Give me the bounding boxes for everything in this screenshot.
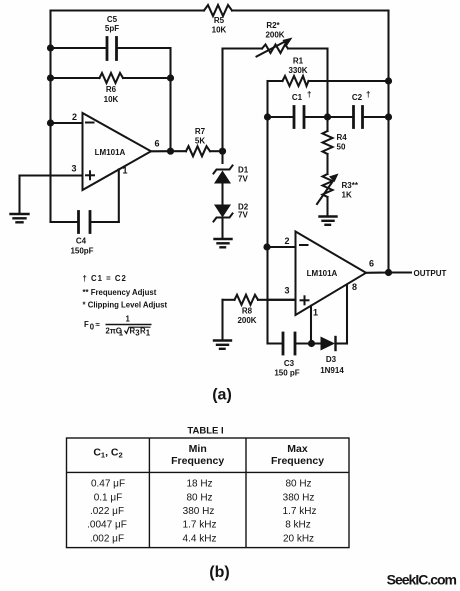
svg-text:C4: C4 — [76, 237, 87, 246]
svg-text:R8: R8 — [242, 307, 253, 316]
wire: left rail (node A vertical) — [49, 11, 51, 223]
svg-text:* Clipping Level Adjust: * Clipping Level Adjust — [83, 301, 168, 310]
capacitor C2 — [328, 107, 389, 128]
svg-text:0: 0 — [90, 323, 95, 332]
svg-text:R6: R6 — [106, 85, 117, 94]
svg-text:1N914: 1N914 — [320, 366, 344, 375]
svg-text:0.1 μF: 0.1 μF — [94, 492, 123, 503]
svg-text:R5: R5 — [214, 16, 225, 25]
svg-text:R2*: R2* — [266, 21, 280, 30]
svg-text:1: 1 — [313, 308, 318, 318]
svg-text:6: 6 — [369, 259, 374, 269]
ground: R3 — [320, 217, 337, 225]
svg-text:7V: 7V — [238, 175, 248, 184]
svg-text:20 kHz: 20 kHz — [283, 533, 314, 544]
node: junction A-C5 — [47, 44, 54, 51]
svg-text:50: 50 — [337, 143, 346, 152]
svg-text:10K: 10K — [104, 95, 119, 104]
svg-text:380 Hz: 380 Hz — [183, 506, 215, 517]
svg-text:1: 1 — [119, 329, 124, 338]
svg-text:8: 8 — [352, 282, 357, 292]
ground: U1 pin3 — [11, 176, 29, 223]
node: junction U1 output — [167, 148, 174, 155]
node: junction A pin2 — [47, 119, 54, 126]
svg-text:† C1 = C2: † C1 = C2 — [83, 274, 127, 283]
svg-text:Max: Max — [287, 443, 308, 455]
svg-text:5K: 5K — [195, 137, 205, 146]
resistor R1 — [268, 76, 389, 117]
svg-text:.022 μF: .022 μF — [90, 506, 124, 517]
svg-text:1K: 1K — [342, 191, 352, 200]
svg-text:8 kHz: 8 kHz — [285, 520, 311, 531]
svg-text:3: 3 — [284, 286, 289, 296]
svg-text:330K: 330K — [288, 66, 307, 75]
diode D3 — [312, 337, 348, 351]
svg-text:C1: C1 — [292, 93, 303, 102]
ground: zener chain — [215, 239, 232, 247]
svg-text:C3: C3 — [284, 359, 295, 368]
ground: R8 — [214, 341, 231, 349]
svg-text:80 Hz: 80 Hz — [285, 479, 311, 490]
svg-text:C5: C5 — [107, 15, 118, 24]
svg-text:.002 μF: .002 μF — [90, 533, 124, 544]
svg-text:R3**: R3** — [342, 181, 359, 190]
svg-text:Frequency: Frequency — [171, 455, 224, 467]
svg-text:150pF: 150pF — [70, 247, 93, 256]
svg-text:1: 1 — [126, 315, 131, 324]
wire: output lead — [389, 271, 412, 273]
svg-text:†: † — [307, 90, 311, 99]
potentiometer R3 — [317, 174, 339, 217]
node: junction R6 right — [167, 74, 174, 81]
capacitor C5 — [51, 38, 171, 60]
svg-text:≈: ≈ — [96, 320, 101, 329]
node: junction C3/D3/pin1 — [308, 340, 315, 347]
svg-text:200K: 200K — [265, 31, 284, 40]
wire: top rail from node A to right rail — [51, 9, 205, 11]
node: junction C1/C2/R4 — [324, 113, 331, 120]
svg-text:5pF: 5pF — [105, 24, 119, 33]
svg-text:380 Hz: 380 Hz — [283, 492, 315, 503]
capacitor C3 — [268, 333, 312, 354]
svg-text:OUTPUT: OUTPUT — [414, 269, 447, 278]
svg-text:C1, C2: C1, C2 — [93, 447, 122, 460]
resistor R5 — [204, 5, 232, 16]
svg-text:D1: D1 — [238, 166, 249, 175]
resistor R7 — [171, 146, 223, 156]
svg-text:LM101A: LM101A — [307, 269, 338, 278]
resistor R6 — [51, 73, 171, 83]
wire: R2 branch vertical down to zener node — [221, 49, 223, 164]
svg-text:2: 2 — [72, 112, 77, 122]
svg-text:10K: 10K — [212, 26, 227, 35]
svg-text:80 Hz: 80 Hz — [186, 492, 212, 503]
node: junction R7/zener — [219, 148, 226, 155]
svg-text:1.7 kHz: 1.7 kHz — [183, 520, 217, 531]
svg-text:6: 6 — [154, 139, 159, 149]
svg-text:18 Hz: 18 Hz — [186, 479, 212, 490]
zener D1 — [214, 166, 233, 205]
resistor R8 — [223, 295, 296, 340]
node: junction A-R6 — [47, 74, 54, 81]
resistor R4 — [323, 117, 333, 174]
svg-text:LM101A: LM101A — [95, 148, 126, 157]
svg-text:(b): (b) — [209, 564, 229, 581]
svg-text:1: 1 — [122, 166, 127, 176]
node: junction R1/right rail — [385, 77, 392, 84]
svg-text:R4: R4 — [337, 133, 348, 142]
svg-text:0.47 μF: 0.47 μF — [91, 479, 125, 490]
svg-text:TABLE I: TABLE I — [187, 426, 223, 437]
node: junction C2 right rail — [385, 113, 392, 120]
node: junction U2 output — [385, 269, 392, 276]
zener D2 — [214, 205, 233, 239]
wire: C5/R6 right vertical to U1 output — [169, 48, 171, 151]
svg-text:150 pF: 150 pF — [274, 369, 299, 378]
potentiometer R2 — [223, 38, 328, 57]
wire: right rail vertical — [387, 11, 389, 273]
svg-text:7V: 7V — [238, 211, 248, 220]
svg-text:(a): (a) — [212, 387, 232, 404]
svg-text:** Frequency Adjust: ** Frequency Adjust — [83, 288, 157, 297]
svg-text:†: † — [366, 90, 370, 99]
svg-text:200K: 200K — [237, 316, 256, 325]
svg-text:SeekIC.com: SeekIC.com — [387, 572, 457, 588]
svg-text:Frequency: Frequency — [271, 455, 324, 467]
svg-text:R7: R7 — [195, 127, 206, 136]
wire: left branch vertical (R1 corner to pin2 to C3) — [266, 117, 268, 344]
wire: R2 right vertical (to C1/C2 node) — [326, 49, 328, 118]
svg-text:.0047 μF: .0047 μF — [87, 520, 127, 531]
node: junction pin2 — [263, 243, 270, 250]
formula F0 — [84, 315, 152, 338]
svg-text:D3: D3 — [326, 355, 337, 364]
svg-text:F: F — [84, 320, 89, 329]
svg-text:4.4 kHz: 4.4 kHz — [183, 533, 217, 544]
capacitor C4 — [51, 169, 119, 232]
capacitor C1 — [268, 107, 328, 128]
op-amp U2 — [267, 232, 389, 316]
svg-text:1.7 kHz: 1.7 kHz — [283, 506, 317, 517]
wire: U2 pin1 vertical — [310, 306, 312, 344]
svg-text:Min: Min — [189, 443, 207, 455]
op-amp U1 — [20, 113, 171, 190]
svg-text:C2: C2 — [352, 93, 363, 102]
table I — [67, 426, 350, 548]
node: junction C1 left — [264, 113, 271, 120]
svg-text:R1: R1 — [293, 57, 304, 66]
svg-text:2: 2 — [284, 236, 289, 246]
svg-text:3: 3 — [71, 164, 76, 174]
svg-text:1: 1 — [146, 329, 151, 338]
wire: U2 pin8 vertical — [346, 285, 348, 344]
